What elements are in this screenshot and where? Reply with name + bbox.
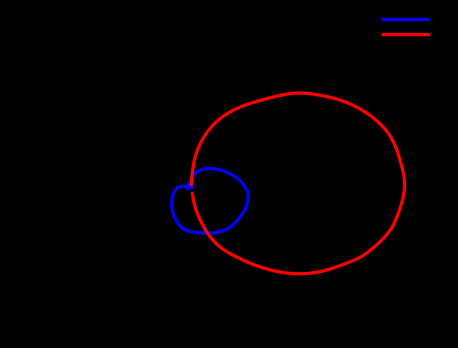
red orbit curve (191, 93, 404, 274)
legend red line sample (382, 33, 430, 36)
legend blue line sample (382, 18, 430, 21)
blue precessing orbit curve (172, 169, 249, 234)
